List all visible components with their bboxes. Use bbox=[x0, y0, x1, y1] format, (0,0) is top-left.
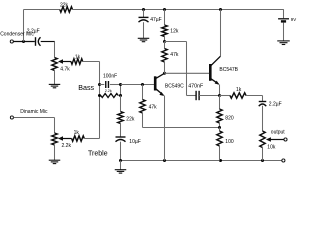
svg-text:2.2k: 2.2k bbox=[62, 143, 72, 149]
svg-text:22k: 22k bbox=[126, 117, 135, 123]
svg-text:100nF: 100nF bbox=[103, 74, 117, 80]
svg-text:47k: 47k bbox=[170, 52, 179, 58]
svg-text:2.2µF: 2.2µF bbox=[269, 102, 282, 108]
svg-text:Treble: Treble bbox=[88, 151, 108, 158]
svg-text:1k: 1k bbox=[75, 55, 81, 61]
svg-text:Dinamic Mic: Dinamic Mic bbox=[20, 109, 48, 115]
svg-text:22k: 22k bbox=[60, 2, 69, 8]
svg-text:BC547B: BC547B bbox=[219, 67, 238, 73]
svg-text:9V: 9V bbox=[291, 17, 296, 22]
svg-text:Bass: Bass bbox=[78, 84, 94, 92]
svg-text:2.2k: 2.2k bbox=[105, 89, 112, 93]
svg-text:4.7k: 4.7k bbox=[60, 67, 70, 73]
svg-text:10µF: 10µF bbox=[129, 139, 141, 145]
svg-text:100: 100 bbox=[225, 139, 234, 145]
svg-text:47k: 47k bbox=[149, 105, 158, 111]
svg-text:47µF: 47µF bbox=[150, 17, 162, 23]
svg-text:820: 820 bbox=[225, 116, 234, 122]
svg-text:1k: 1k bbox=[74, 130, 80, 136]
svg-text:470nF: 470nF bbox=[188, 84, 204, 90]
svg-text:1k: 1k bbox=[236, 87, 242, 93]
svg-text:10k: 10k bbox=[267, 145, 276, 151]
svg-text:12k: 12k bbox=[170, 28, 179, 34]
svg-text:2.2µF: 2.2µF bbox=[27, 28, 40, 34]
svg-text:output: output bbox=[271, 130, 286, 136]
svg-text:BC549C: BC549C bbox=[165, 84, 184, 90]
